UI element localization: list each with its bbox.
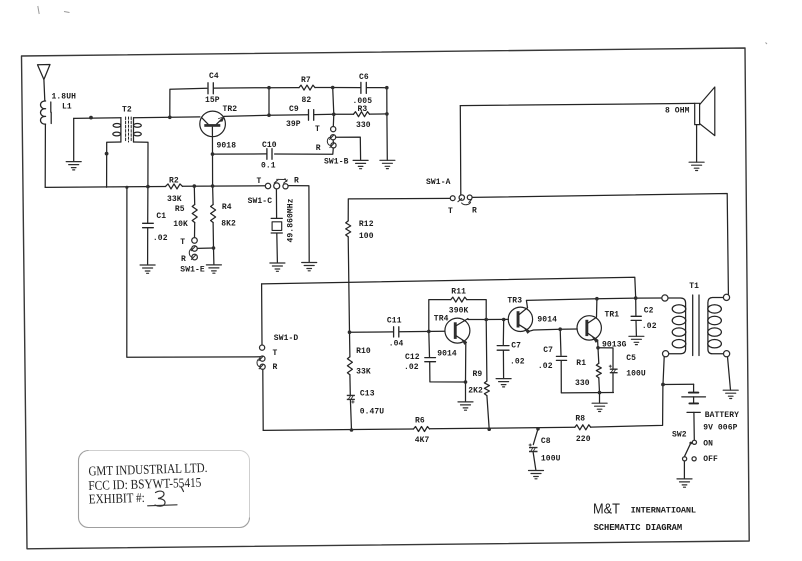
svg-text:10K: 10K [173, 220, 188, 229]
svg-text:0.47U: 0.47U [360, 408, 385, 417]
svg-text:R7: R7 [301, 76, 311, 85]
svg-text:.02: .02 [404, 363, 419, 372]
svg-text:0.1: 0.1 [261, 162, 276, 171]
svg-text:SW1-C: SW1-C [248, 197, 273, 206]
svg-text:C7: C7 [511, 342, 521, 351]
svg-text:L1: L1 [62, 103, 72, 112]
svg-text:220: 220 [576, 435, 591, 444]
svg-text:EXHIBIT #:: EXHIBIT #: [89, 490, 145, 507]
svg-text:9014: 9014 [437, 350, 457, 359]
svg-text:330: 330 [356, 121, 371, 130]
svg-text:R10: R10 [356, 347, 371, 356]
svg-text:9V 006P: 9V 006P [703, 424, 737, 433]
svg-text:390K: 390K [449, 307, 469, 316]
svg-text:SW2: SW2 [672, 431, 687, 440]
svg-text:M&T: M&T [593, 501, 620, 518]
svg-text:ON: ON [703, 440, 713, 449]
svg-text:T: T [257, 177, 262, 186]
svg-text:R: R [472, 207, 477, 216]
svg-text:C2: C2 [644, 307, 654, 316]
svg-text:9013G: 9013G [602, 341, 627, 350]
svg-text:TR3: TR3 [507, 297, 522, 306]
svg-text:33K: 33K [356, 368, 371, 377]
svg-text:R: R [181, 255, 186, 264]
svg-text:C5: C5 [626, 354, 636, 363]
svg-text:.04: .04 [389, 340, 404, 349]
svg-text:T: T [273, 349, 278, 358]
svg-text:T: T [315, 125, 320, 134]
svg-text:4K7: 4K7 [415, 436, 430, 445]
svg-text:R12: R12 [359, 220, 374, 229]
svg-text:2K2: 2K2 [468, 387, 483, 396]
svg-text:R: R [273, 363, 278, 372]
svg-text:1.8UH: 1.8UH [52, 93, 77, 102]
svg-text:C1: C1 [156, 212, 166, 221]
svg-text:R6: R6 [415, 417, 425, 426]
svg-text:100U: 100U [626, 370, 646, 379]
svg-text:.02: .02 [510, 358, 525, 367]
svg-text:100U: 100U [541, 455, 561, 464]
svg-text:.02: .02 [642, 322, 657, 331]
svg-text:SW1-E: SW1-E [180, 266, 205, 275]
svg-text:C10: C10 [262, 141, 277, 150]
svg-text:BATTERY: BATTERY [705, 411, 739, 420]
svg-text:C11: C11 [387, 317, 402, 326]
svg-text:R: R [294, 177, 299, 186]
svg-text:330: 330 [575, 379, 590, 388]
svg-text:R4: R4 [222, 203, 232, 212]
svg-text:9014: 9014 [537, 316, 557, 325]
svg-text:T: T [180, 238, 185, 247]
svg-text:SW1-A: SW1-A [426, 178, 451, 187]
svg-text:OFF: OFF [703, 455, 718, 464]
svg-text:33K: 33K [167, 195, 182, 204]
svg-text:T: T [448, 207, 453, 216]
svg-text:R9: R9 [473, 370, 483, 379]
svg-text:C9: C9 [289, 105, 299, 114]
svg-text:SW1-D: SW1-D [274, 334, 299, 343]
svg-text:T2: T2 [122, 106, 132, 115]
svg-text:SCHEMATIC DIAGRAM: SCHEMATIC DIAGRAM [594, 523, 683, 533]
svg-text:9018: 9018 [217, 142, 237, 151]
svg-text:T1: T1 [689, 282, 699, 291]
svg-text:.02: .02 [538, 362, 553, 371]
svg-text:C4: C4 [209, 72, 219, 81]
svg-text:82: 82 [302, 96, 312, 105]
svg-text:.02: .02 [153, 234, 168, 243]
svg-text:R1: R1 [576, 359, 586, 368]
svg-text:100: 100 [359, 232, 374, 241]
svg-text:R8: R8 [575, 415, 585, 424]
svg-text:15P: 15P [205, 96, 220, 105]
svg-text:8K2: 8K2 [221, 220, 236, 229]
svg-text:SW1-B: SW1-B [324, 158, 349, 167]
svg-text:R2: R2 [169, 177, 179, 186]
svg-text:C12: C12 [405, 353, 420, 362]
svg-text:INTERNATIOANL: INTERNATIOANL [631, 506, 697, 516]
svg-text:C6: C6 [359, 73, 369, 82]
svg-text:R11: R11 [451, 288, 466, 297]
svg-text:C8: C8 [541, 437, 551, 446]
svg-text:R3: R3 [358, 105, 368, 114]
svg-text:C13: C13 [360, 390, 375, 399]
svg-text:39P: 39P [286, 120, 301, 129]
svg-text:49.860MHz: 49.860MHz [287, 198, 296, 242]
svg-text:TR2: TR2 [223, 105, 238, 114]
svg-text:8 OHM: 8 OHM [665, 107, 690, 116]
svg-text:R: R [316, 144, 321, 153]
svg-text:R5: R5 [175, 205, 185, 214]
svg-text:C7: C7 [543, 346, 553, 355]
svg-text:TR1: TR1 [605, 311, 620, 320]
svg-text:TR4: TR4 [434, 315, 449, 324]
